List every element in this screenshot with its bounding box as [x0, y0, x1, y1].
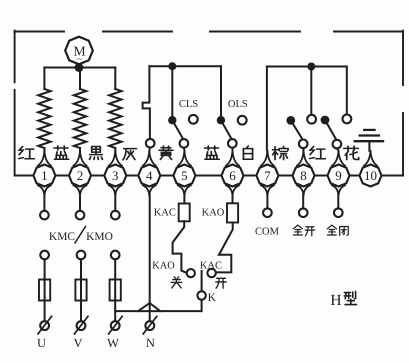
terminal 9 top clamp: [332, 151, 345, 166]
label W: [107, 336, 119, 350]
terminal 9: [328, 165, 350, 187]
contact circle full-open fixed: [307, 115, 316, 124]
relay contact KAO: [227, 203, 238, 222]
terminal 3 bottom clamp: [109, 185, 122, 195]
switch CLS blade: [172, 120, 183, 139]
terminal 4 top clamp: [143, 151, 156, 166]
label close: [171, 277, 181, 288]
wire mid contact drop: [310, 67, 312, 115]
label open: [216, 278, 227, 288]
resistor R2: [74, 89, 86, 148]
plug circle N: [143, 316, 157, 334]
node motor junction: [75, 63, 84, 72]
contact circle KM 3: [111, 211, 120, 220]
wire resistor R1 top lead: [43, 68, 45, 90]
wire supply U: [44, 259, 46, 321]
terminal 6 top clamp: [226, 151, 239, 166]
fuse W: [110, 280, 121, 301]
contact circle KM 1: [40, 211, 49, 220]
wire terminal strip: [15, 175, 403, 177]
wire below terminal: [266, 195, 268, 209]
label V: [73, 336, 82, 350]
svg-text:KAO: KAO: [152, 261, 175, 272]
svg-text:COM: COM: [255, 227, 280, 238]
label wire colour hei: [90, 147, 103, 160]
label CLS: [179, 99, 198, 110]
switch CLS NO contact: [189, 115, 198, 124]
contact circle above terminal 4: [146, 139, 155, 148]
wire KAC jog: [173, 221, 187, 273]
wire OLS pole drop: [220, 66, 222, 116]
wire contact stub: [231, 148, 233, 151]
svg-text:8: 8: [300, 168, 307, 183]
wire CLS bus: [149, 65, 221, 67]
wire below terminal 2: [79, 195, 81, 211]
terminal 4 bottom clamp: [143, 185, 156, 195]
contact circle above terminal 9: [333, 140, 342, 149]
contact circle close: [187, 269, 195, 277]
ground symbol: [355, 130, 383, 151]
switch full-open pole: [286, 116, 295, 125]
label K: [208, 292, 217, 304]
wire supply V: [80, 259, 82, 321]
svg-text:1: 1: [41, 168, 48, 183]
resistor R1: [38, 89, 50, 148]
wire supply W: [114, 259, 116, 321]
svg-text:KAO: KAO: [202, 207, 225, 218]
svg-text:10: 10: [364, 168, 377, 183]
plug circle W: [109, 316, 123, 334]
label KMC/KMO: [49, 227, 113, 244]
switch K blade: [201, 271, 203, 291]
label full-closed: [327, 225, 348, 235]
contact circle KM 2: [76, 211, 85, 220]
label OLS: [228, 99, 248, 110]
label full-open: [293, 225, 315, 236]
terminal 1 top clamp: [38, 151, 51, 166]
terminal 8 bottom clamp: [297, 185, 310, 195]
wire resistor R3 bottom lead: [114, 148, 116, 151]
svg-text:9: 9: [335, 168, 342, 183]
label KAC upper: [154, 207, 176, 218]
relay contact KAC: [179, 204, 190, 222]
fuse U: [39, 280, 50, 301]
wire below terminal: [337, 195, 339, 209]
terminal 7 top clamp: [261, 151, 274, 166]
wire right contact drop: [346, 67, 348, 115]
terminal 1: [33, 165, 55, 187]
label wire colour hui: [123, 149, 137, 160]
enclosure border top: [15, 31, 403, 33]
wire terminal 6 to KAO coil: [232, 195, 234, 204]
svg-text:W: W: [107, 336, 119, 350]
node feedback bus junction: [307, 63, 315, 71]
switch full-open blade: [291, 120, 303, 140]
svg-text:KMO: KMO: [86, 231, 113, 243]
label wire colour hua: [344, 146, 359, 160]
label wire colour huang: [159, 146, 173, 160]
wire neutral split left: [138, 303, 150, 311]
signal contact circle: [334, 208, 343, 217]
contact circle K: [197, 291, 205, 299]
contact circle open: [207, 269, 215, 277]
contact circle above terminal 8: [299, 140, 308, 149]
terminal 5 bottom clamp: [178, 185, 191, 195]
label wire colour zong: [273, 146, 288, 159]
terminal 6: [222, 165, 244, 187]
label wire colour hong: [310, 146, 326, 158]
wire neutral bus: [115, 310, 201, 312]
svg-text:V: V: [73, 336, 82, 350]
signal contact circle: [299, 208, 308, 217]
switch CLS pole: [168, 116, 176, 124]
wire CLS pole drop: [171, 66, 173, 116]
enclosure border left: [14, 31, 16, 175]
terminal 2: [69, 165, 91, 187]
contact circle full-closed fixed: [343, 115, 352, 124]
label N: [146, 336, 155, 350]
switch OLS pole: [217, 116, 225, 124]
terminal 9 bottom clamp: [332, 185, 345, 195]
terminal 2 top clamp: [74, 151, 87, 166]
wire motor bus: [44, 67, 115, 69]
terminal 3 top clamp: [109, 151, 122, 166]
contact circle supply W: [111, 251, 120, 260]
wire contact stub: [148, 147, 151, 150]
label wire colour lan: [54, 146, 69, 159]
wire resistor R1 bottom lead: [43, 148, 45, 151]
wire resistor R2 bottom lead: [79, 148, 81, 151]
enclosure border right: [402, 31, 404, 175]
resistor R3: [109, 89, 121, 148]
plug circle U: [38, 316, 52, 334]
svg-text:CLS: CLS: [179, 99, 198, 110]
svg-text:7: 7: [264, 168, 271, 183]
terminal 7: [256, 165, 278, 187]
terminal 7 bottom clamp: [261, 185, 274, 195]
terminal 4: [138, 165, 160, 187]
svg-text:KAC: KAC: [154, 207, 176, 218]
wire resistor R2 top lead: [79, 68, 81, 90]
wire resistor R3 top lead: [114, 68, 116, 90]
terminal 3: [104, 165, 126, 187]
wire below terminal 3: [114, 195, 116, 211]
svg-text:KMC: KMC: [49, 231, 76, 243]
label KAC lower: [200, 260, 222, 271]
wire contact stub: [302, 148, 304, 151]
label KAO lower: [152, 261, 175, 272]
svg-text:K: K: [208, 292, 217, 304]
label wire colour bai: [243, 146, 252, 159]
wire terminal 5 to KAC coil: [183, 195, 185, 204]
contact circle above terminal 6: [228, 139, 237, 148]
terminal 5 top clamp: [178, 151, 191, 166]
wire below terminal: [302, 195, 304, 209]
svg-text:KAC: KAC: [200, 260, 222, 271]
switch OLS NO contact: [238, 116, 247, 125]
wire KAO jog: [216, 223, 233, 273]
terminal 2 bottom clamp: [74, 185, 87, 195]
terminal 5: [173, 165, 195, 187]
contact circle supply U: [40, 251, 49, 260]
svg-text:6: 6: [229, 168, 236, 183]
svg-text:2: 2: [77, 168, 84, 183]
wire above terminal 8: [302, 148, 304, 151]
wire below terminal 1: [43, 195, 45, 211]
label U: [37, 336, 46, 350]
svg-text:4: 4: [146, 168, 153, 183]
terminal 10 top clamp: [364, 151, 377, 166]
terminal 6 bottom clamp: [226, 185, 239, 195]
signal contact circle: [263, 208, 272, 217]
wire gray drop with jog: [143, 66, 150, 139]
svg-text:H: H: [330, 292, 341, 309]
wire neutral from terminal 4: [149, 195, 151, 322]
terminal 10: [360, 165, 382, 187]
switch full-closed pole: [321, 116, 330, 125]
label KAO upper: [202, 207, 225, 218]
svg-text:5: 5: [181, 168, 188, 183]
plug circle V: [74, 316, 88, 334]
label COM: [255, 227, 280, 238]
switch full-closed blade: [325, 120, 337, 140]
motor M: [65, 37, 93, 65]
terminal 1 bottom clamp: [38, 185, 51, 195]
fuse V: [75, 280, 86, 301]
wire neutral split right: [150, 303, 160, 311]
label wire colour lan: [205, 146, 220, 159]
wire brown drop to terminal 7: [266, 67, 268, 151]
svg-text:~: ~: [77, 54, 82, 64]
wire contact stub: [183, 148, 186, 151]
svg-text:U: U: [37, 336, 46, 350]
contact circle above terminal 5: [180, 139, 189, 148]
label H-type: [330, 291, 356, 308]
terminal 8 top clamp: [297, 151, 310, 166]
contact circle supply V: [77, 251, 86, 260]
terminal 8: [293, 165, 315, 187]
wire feedback bus: [267, 66, 347, 68]
node CLS bus junction: [168, 62, 176, 70]
svg-text:N: N: [146, 336, 155, 350]
wire contact stub: [337, 148, 339, 151]
wire K to neutral bus: [201, 300, 203, 311]
switch OLS blade: [221, 120, 232, 139]
label wire colour hong: [19, 146, 35, 158]
svg-text:3: 3: [112, 168, 119, 183]
svg-text:OLS: OLS: [228, 99, 248, 110]
